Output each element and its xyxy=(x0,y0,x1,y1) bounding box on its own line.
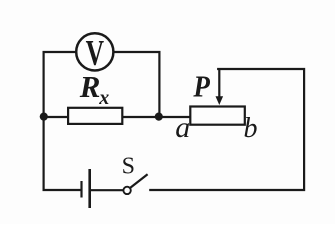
node junction dot right xyxy=(155,113,163,121)
wire wiper arm vertical xyxy=(218,70,220,98)
svg-text:x: x xyxy=(98,87,109,109)
switch S pivot circle xyxy=(123,187,130,194)
svg-text:S: S xyxy=(122,153,135,179)
wire main horizontal left of resistor xyxy=(44,116,69,118)
wire voltmeter loop left + left branch + bottom-left wire xyxy=(44,52,81,190)
switch S lever xyxy=(130,174,147,187)
voltmeter U1 circle xyxy=(76,33,113,70)
potentiometer P wiper arrowhead xyxy=(216,96,224,105)
svg-text:a: a xyxy=(175,111,190,144)
battery plate long (positive) xyxy=(88,169,91,208)
battery plate short (negative) xyxy=(80,181,82,198)
wire battery to switch xyxy=(91,189,123,191)
svg-text:V: V xyxy=(86,32,105,72)
node junction dot left xyxy=(40,113,48,121)
wire wiper arm horizontal + right vertical + bottom-right wire xyxy=(150,69,304,190)
potentiometer P box xyxy=(190,107,245,125)
resistor Rx box xyxy=(68,108,122,124)
wire voltmeter loop right + right vertical down to junction xyxy=(114,52,160,117)
svg-text:P: P xyxy=(192,70,210,104)
svg-text:R: R xyxy=(79,69,101,104)
wire main horizontal right of resistor to potentiometer xyxy=(122,116,191,118)
svg-text:b: b xyxy=(244,113,258,144)
